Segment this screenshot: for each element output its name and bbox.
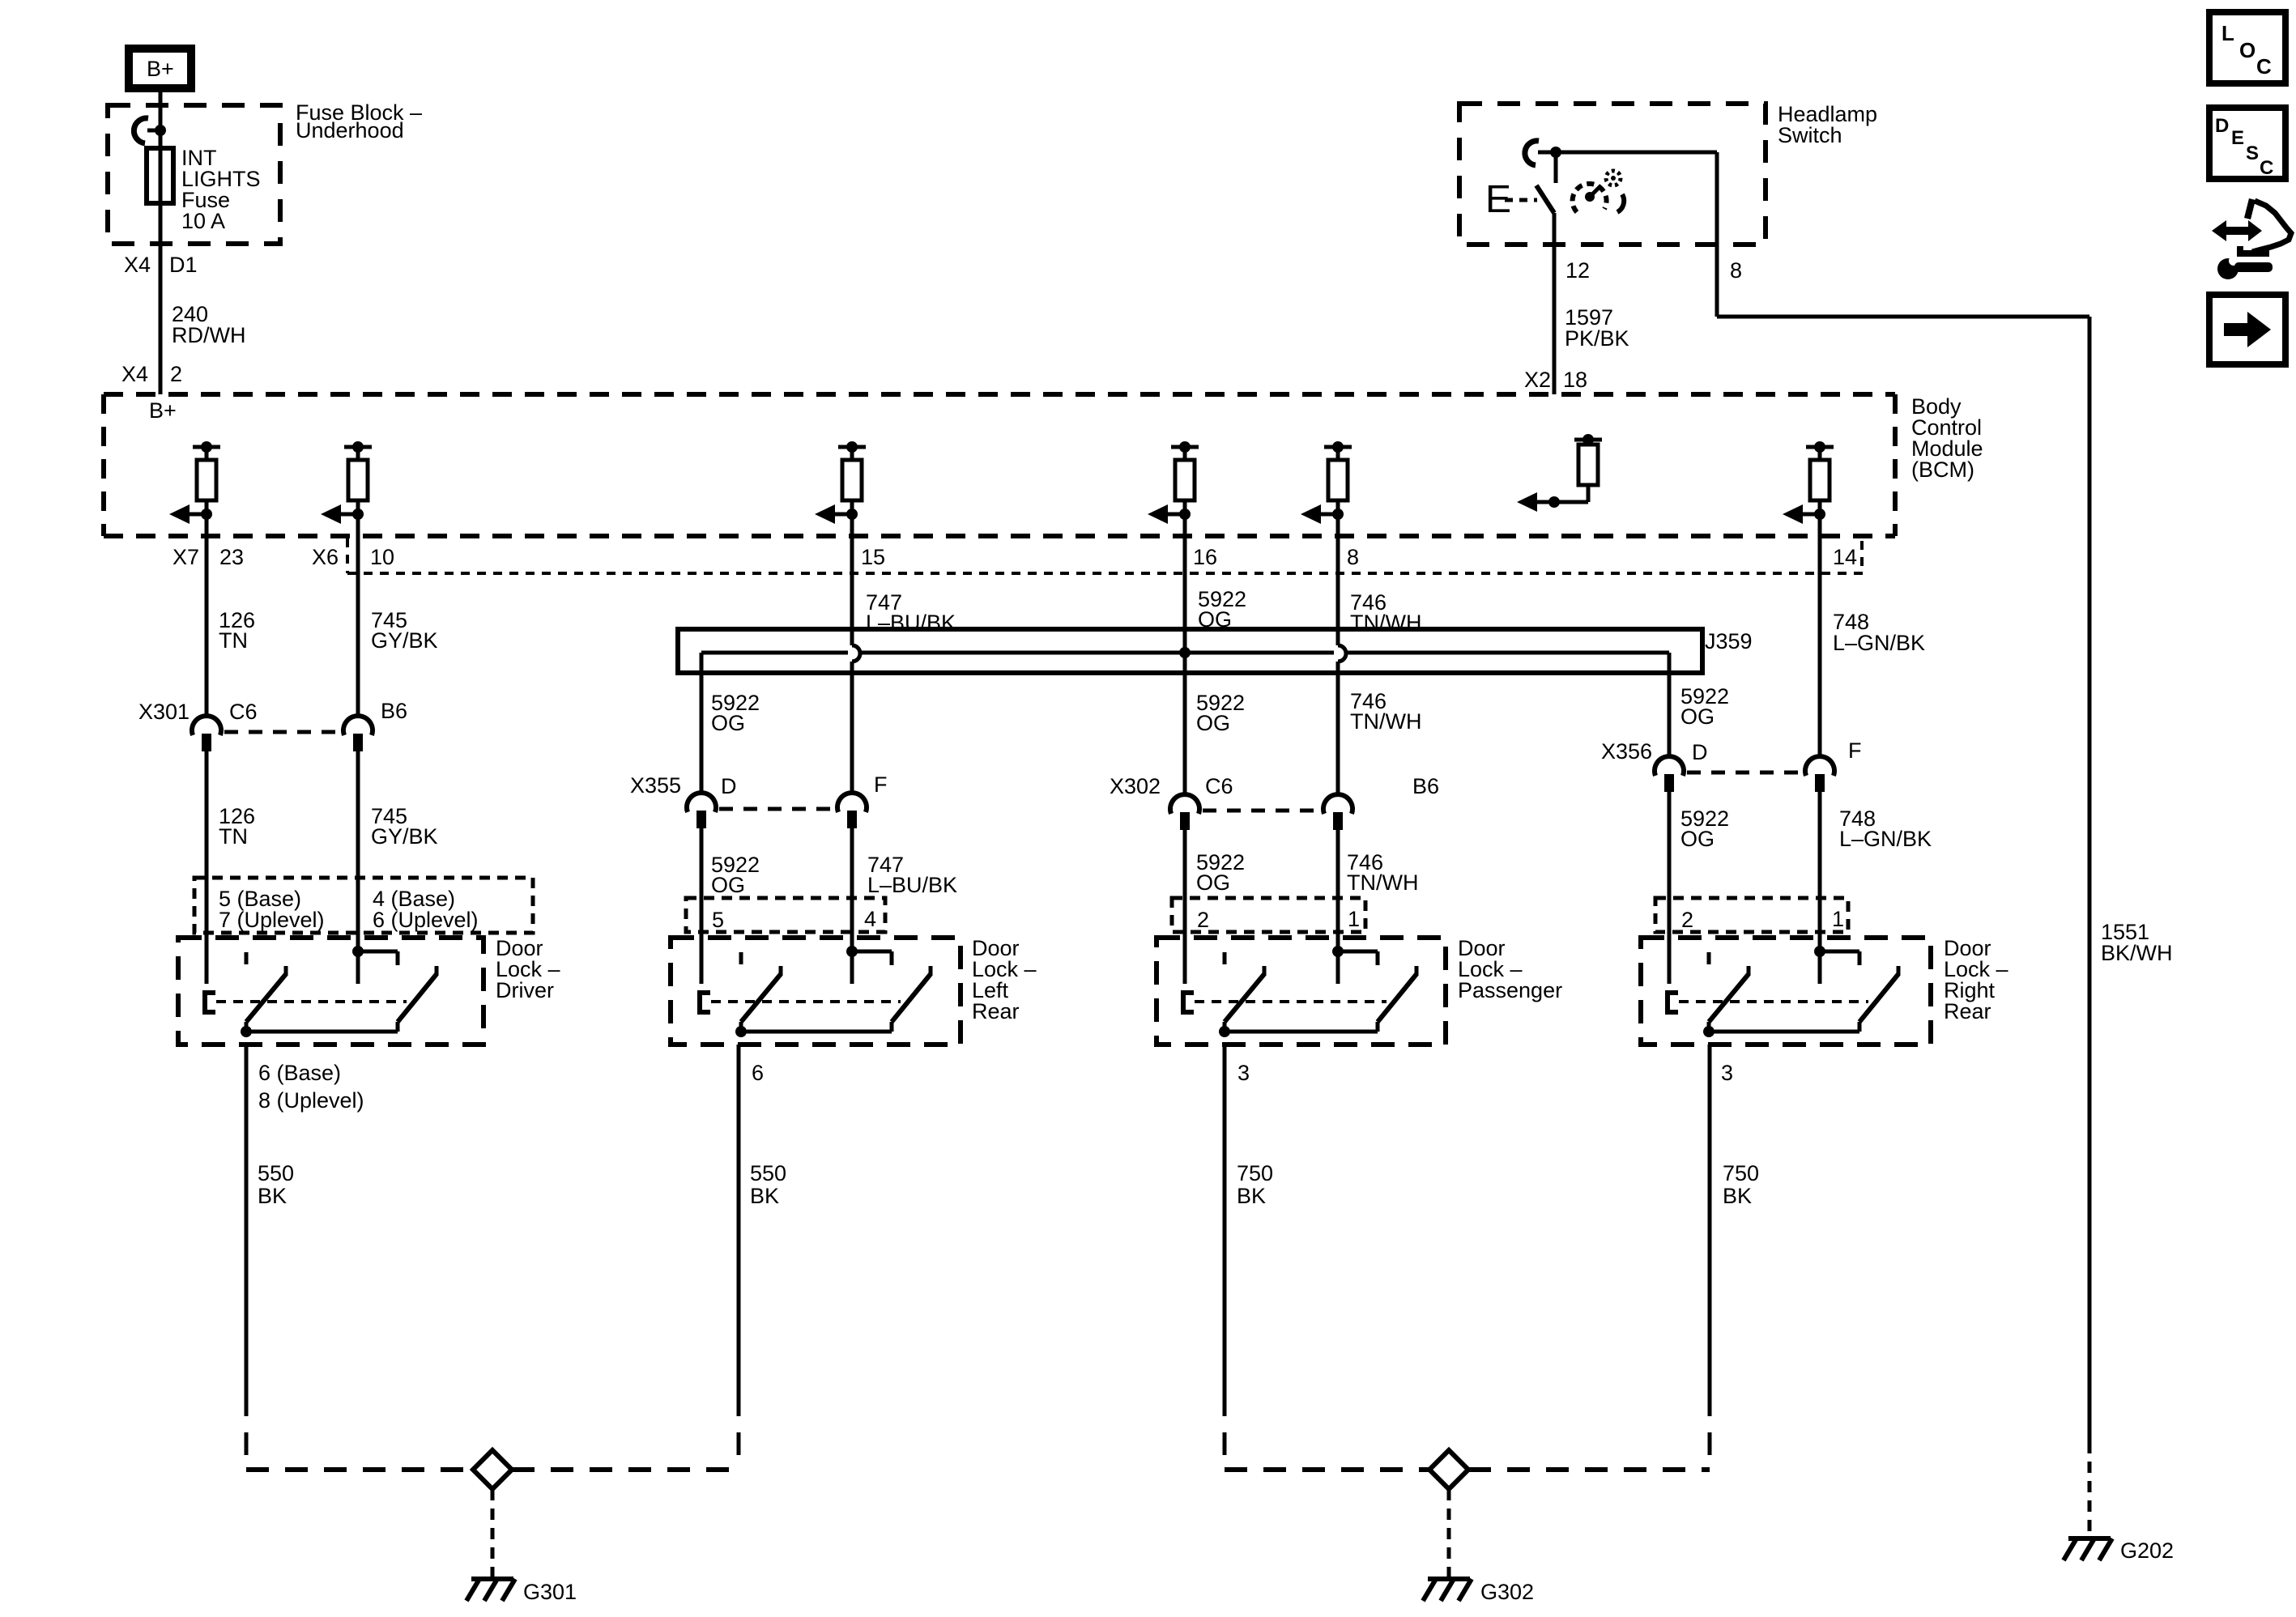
wire 745 GY/BK X301 to driver lock [358, 750, 438, 951]
svg-text:O: O [2239, 38, 2256, 62]
wire 747 L-BU/BK X355 to left rear lock [852, 827, 957, 951]
door lock switch Left Rear box [671, 936, 1037, 1045]
wire 5922 OG bus left exit to X355-D [701, 673, 760, 794]
ground bus to G302 [1225, 1467, 1710, 1472]
Fuse Block Underhood box [108, 100, 422, 244]
node B+ inside BCM [149, 398, 177, 423]
LOC reference box icon [2209, 12, 2285, 83]
wire 748 L-GN/BK X356 to right rear lock [1820, 790, 1932, 951]
door lock switch Driver box [178, 936, 560, 1045]
svg-text:10: 10 [370, 545, 394, 569]
pin 12 label [1565, 258, 1590, 283]
wire 1597 PK/BK from switch pin 12 to BCM X2-18 [1553, 213, 1557, 394]
wire 746 TN/WH X302 to passenger lock [1338, 828, 1418, 951]
connector X4 pin 2 [121, 362, 182, 386]
svg-text:G301: G301 [523, 1580, 577, 1604]
splice S301 diamond [473, 1450, 512, 1489]
svg-text:18: 18 [1563, 368, 1587, 392]
svg-text:D: D [721, 774, 737, 798]
wire 126 TN X301 to driver lock [207, 750, 255, 984]
svg-text:D: D [2215, 115, 2229, 137]
driver lock output pins 6/8 [258, 1061, 364, 1113]
svg-text:6: 6 [752, 1061, 764, 1085]
svg-text:X4: X4 [121, 362, 148, 386]
connector X2 pin 18 [1524, 368, 1587, 392]
svg-text:BK/WH: BK/WH [2101, 941, 2173, 965]
svg-text:D1: D1 [169, 253, 198, 277]
BCM driver output pin 15 [815, 441, 866, 524]
ground G301 [466, 1579, 577, 1604]
svg-text:GY/BK: GY/BK [371, 824, 438, 849]
svg-text:550: 550 [750, 1161, 786, 1185]
svg-text:1: 1 [1348, 907, 1360, 931]
wire 746 TN/WH pin8 (hops bus) [1338, 514, 1421, 797]
svg-text:8: 8 [1730, 258, 1742, 283]
Headlamp Switch box [1459, 102, 1877, 245]
wire 5922 OG X302 to passenger lock [1185, 828, 1245, 984]
svg-text:Driver: Driver [496, 978, 554, 1002]
svg-text:14: 14 [1833, 545, 1857, 569]
wire 750 BK right rear ground [1710, 1045, 1759, 1470]
svg-text:C6: C6 [229, 700, 258, 724]
connector X302 [1110, 774, 1439, 830]
forward arrow box icon [2209, 295, 2285, 364]
pin 8 label [1730, 258, 1742, 283]
svg-text:OG: OG [1196, 711, 1230, 735]
svg-text:C: C [2256, 54, 2272, 79]
svg-text:23: 23 [219, 545, 244, 569]
wire 1597 PK/BK labels [1565, 305, 1629, 351]
svg-text:16: 16 [1193, 545, 1217, 569]
ground bus to G301 [246, 1467, 739, 1472]
door lock switch Passenger contacts and blades [1183, 935, 1416, 1037]
svg-text:TN: TN [219, 824, 248, 849]
svg-text:BK: BK [1237, 1184, 1266, 1208]
svg-text:BK: BK [258, 1184, 287, 1208]
wire 126 TN pin23 to X301-C6 [207, 514, 255, 718]
battery feed B+ terminal [129, 49, 191, 88]
wire 748 L-GN/BK pin14 to X356-F [1820, 514, 1925, 759]
fuse INT LIGHTS 10A [147, 146, 261, 233]
svg-text:F: F [1848, 738, 1862, 763]
wire 550 BK left rear ground [739, 1045, 786, 1470]
svg-text:L–GN/BK: L–GN/BK [1833, 631, 1925, 655]
svg-text:8: 8 [1347, 545, 1359, 569]
svg-text:2: 2 [1681, 908, 1693, 932]
wire 240 RD/WH [172, 302, 245, 347]
ground lead G202 [2088, 1442, 2092, 1537]
ground G302 [1423, 1579, 1534, 1604]
wire 5922 OG X356 to right rear lock [1669, 790, 1729, 984]
door lock switch Right Rear box [1641, 936, 2008, 1045]
svg-text:8 (Uplevel): 8 (Uplevel) [258, 1088, 364, 1113]
svg-text:X4: X4 [124, 253, 151, 277]
svg-text:(BCM): (BCM) [1911, 457, 1974, 482]
BCM pin labels 15 16 8 14 [861, 545, 1857, 569]
passenger lock output pin 3 [1237, 1061, 1250, 1085]
right rear lock pin id box [1655, 898, 1848, 932]
svg-text:X355: X355 [630, 773, 681, 798]
svg-text:D: D [1692, 740, 1708, 764]
svg-text:10 A: 10 A [181, 209, 225, 233]
splice pack J359 outer [678, 629, 1753, 673]
svg-text:C: C [2260, 157, 2273, 179]
DESC reference box icon [2209, 108, 2285, 179]
wire 5922 OG X355 to left rear lock [701, 827, 760, 984]
svg-text:L–BU/BK: L–BU/BK [867, 873, 957, 897]
wire 5922 OG bus right exit to X356-D [1669, 673, 1729, 759]
switch position E link [1485, 178, 1537, 221]
wire 1551 from switch pin 8 [1556, 152, 2089, 1442]
svg-text:3: 3 [1237, 1061, 1250, 1085]
connector X4 pin D1 [124, 253, 198, 277]
wire 747 L-BU/BK pin15 (hops bus) [852, 514, 956, 795]
svg-text:G302: G302 [1480, 1580, 1534, 1604]
svg-text:X356: X356 [1601, 739, 1652, 764]
svg-text:Rear: Rear [1944, 999, 1991, 1023]
ground lead G302 [1447, 1489, 1451, 1577]
svg-text:X2: X2 [1524, 368, 1551, 392]
svg-text:X301: X301 [138, 700, 190, 724]
wire 1551 BK/WH labels [2101, 920, 2173, 965]
svg-text:F: F [874, 772, 888, 797]
svg-text:750: 750 [1237, 1161, 1273, 1185]
svg-text:S: S [2246, 143, 2259, 164]
BCM driver output pin 8 [1301, 441, 1352, 524]
headlamp switch common node [1550, 147, 1561, 183]
svg-text:B+: B+ [147, 57, 174, 81]
svg-text:12: 12 [1565, 258, 1590, 283]
svg-text:OG: OG [711, 873, 745, 897]
connector X301 [138, 699, 407, 751]
left rear lock output pin 6 [752, 1061, 764, 1085]
svg-text:X7: X7 [173, 545, 199, 569]
svg-text:2: 2 [1197, 908, 1209, 932]
svg-text:L–GN/BK: L–GN/BK [1839, 827, 1932, 851]
fuse clip terminal [134, 118, 166, 143]
hand with double arrow and wrench icon [2212, 198, 2291, 279]
headlamp switch blade [1536, 185, 1554, 213]
wire 550 BK driver ground [246, 1045, 294, 1470]
svg-text:J359: J359 [1705, 629, 1753, 653]
BCM driver output pin X6-10 [321, 441, 372, 524]
svg-text:6 (Uplevel): 6 (Uplevel) [373, 908, 479, 932]
svg-text:X6: X6 [312, 545, 339, 569]
headlamp switch clip terminal [1525, 141, 1556, 165]
ground G202 [2064, 1538, 2174, 1563]
svg-text:OG: OG [1196, 870, 1230, 895]
svg-text:6 (Base): 6 (Base) [258, 1061, 341, 1085]
passenger lock pin id box [1172, 898, 1365, 932]
door lock switch Right Rear contacts and blades [1668, 935, 1898, 1037]
svg-text:15: 15 [861, 545, 885, 569]
wire from B+ to BCM through fuse [159, 88, 163, 394]
BCM driver output pin 14 [1783, 441, 1834, 524]
wire 750 BK passenger ground [1225, 1045, 1273, 1470]
svg-text:BK: BK [750, 1184, 779, 1208]
connector X355 [630, 772, 888, 828]
svg-text:B6: B6 [1412, 774, 1439, 798]
svg-text:550: 550 [258, 1161, 294, 1185]
svg-text:G202: G202 [2120, 1538, 2174, 1563]
X2 connector boundary dotted line [347, 538, 1867, 573]
svg-text:TN/WH: TN/WH [1347, 870, 1418, 895]
door lock switch Passenger box [1157, 936, 1562, 1045]
svg-text:GY/BK: GY/BK [371, 628, 438, 653]
svg-text:C6: C6 [1205, 774, 1233, 798]
svg-text:RD/WH: RD/WH [172, 323, 245, 347]
BCM driver output pin X7-23 [169, 441, 220, 524]
svg-text:PK/BK: PK/BK [1565, 326, 1629, 351]
connector X356 [1601, 738, 1862, 792]
svg-text:B6: B6 [381, 699, 407, 723]
wire 5922 OG pin16 to bus junction [1185, 514, 1246, 797]
BCM driver output pin 16 [1148, 441, 1199, 524]
wire 745 GY/BK pin10 to X301-B6 [358, 514, 438, 718]
wire 5922 OG to X302-C6 label [1196, 691, 1245, 735]
svg-text:Switch: Switch [1778, 123, 1842, 147]
ground lead G301 [491, 1489, 495, 1577]
splice S302 diamond [1429, 1450, 1468, 1489]
dimmer gauge icon [1573, 171, 1625, 212]
svg-text:750: 750 [1723, 1161, 1759, 1185]
svg-text:E: E [2231, 127, 2244, 149]
svg-text:Passenger: Passenger [1458, 978, 1562, 1002]
BCM pin labels X7 23 / X6 10 [173, 545, 394, 569]
svg-text:Underhood: Underhood [296, 118, 404, 143]
svg-text:B+: B+ [149, 398, 177, 423]
svg-text:BK: BK [1723, 1184, 1752, 1208]
splice pack J359 inner bus wire 5922 OG [701, 647, 1669, 673]
wire 746 TN/WH to X302-B6 label [1350, 689, 1421, 734]
svg-text:Rear: Rear [972, 999, 1020, 1023]
svg-text:4: 4 [864, 907, 876, 931]
svg-text:1: 1 [1832, 907, 1844, 931]
svg-text:OG: OG [711, 711, 745, 735]
right rear lock output pin 3 [1721, 1061, 1733, 1085]
svg-text:TN/WH: TN/WH [1350, 709, 1421, 734]
BCM headlamp switch input pin 18 [1517, 434, 1602, 512]
driver lock pin id box [194, 878, 533, 933]
door lock switch Left Rear contacts and blades [700, 935, 931, 1037]
svg-text:TN: TN [219, 628, 248, 653]
svg-text:L: L [2221, 21, 2234, 45]
svg-text:X302: X302 [1110, 774, 1161, 798]
svg-text:3: 3 [1721, 1061, 1733, 1085]
Body Control Module (BCM) box [104, 394, 1983, 536]
left rear lock pin id box [686, 898, 885, 932]
svg-text:2: 2 [170, 362, 182, 386]
svg-text:OG: OG [1680, 704, 1715, 729]
svg-text:7 (Uplevel): 7 (Uplevel) [219, 908, 325, 932]
door lock switch Driver contacts and blades [205, 935, 437, 1037]
svg-text:OG: OG [1680, 827, 1715, 851]
svg-text:5: 5 [712, 908, 724, 932]
